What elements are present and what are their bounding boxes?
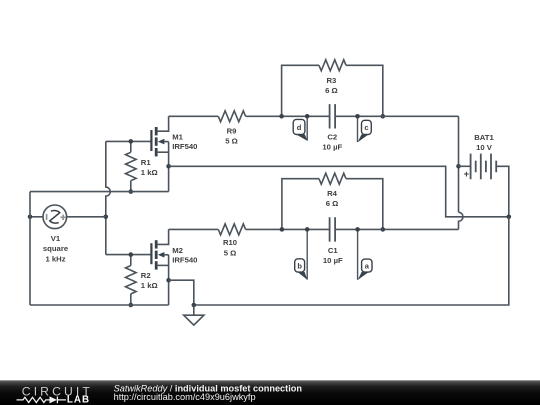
wire: M1 gate net horizontal [106,140,152,142]
node: V1 left junction [28,215,33,220]
svg-text:R9: R9 [227,126,237,135]
ground symbol [193,305,195,315]
node: R2 bottom junction [129,303,134,308]
svg-text:d: d [297,123,302,132]
wire: M2 source lead [158,264,169,266]
resistor R1 [130,141,132,152]
node: M2 source junction [166,278,171,283]
node: M1 source junction [166,164,171,169]
wire: M2 source vertical to bottom rail [168,255,170,305]
svg-text:R1: R1 [141,158,152,167]
wire: M1 source lead [158,151,169,153]
capacitor C2 [330,104,336,128]
transistor M2 IRF540 [150,243,152,264]
svg-text:LAB: LAB [67,395,90,405]
wire: R10 to C1 row [246,228,330,230]
wire: battery column hop over lower row [459,212,464,229]
logo resistor-diode squiggle [17,397,67,404]
svg-text:1 kΩ: 1 kΩ [141,168,158,177]
battery plates [471,154,491,180]
wire: M2 drain row with R10 [169,228,219,230]
resistor R3 parallel loop [282,65,319,116]
node: battery left junction [456,164,461,169]
svg-text:C1: C1 [328,246,339,255]
wire: V1 source row (R1 bottom rail) [30,191,169,193]
node: R4 left junction [280,227,285,232]
svg-text:b: b [297,262,302,271]
node: flag d junction [305,114,310,119]
svg-text:10 V: 10 V [476,143,493,152]
wire: source jog to ground [169,280,194,305]
svg-text:http://circuitlab.com/c49x9u6j: http://circuitlab.com/c49x9u6jwkyfp [114,392,256,402]
svg-text:IRF540: IRF540 [172,256,197,265]
svg-text:R4: R4 [327,189,338,198]
wire: bottom rail left [30,304,169,306]
resistor R4 parallel loop [282,179,319,230]
svg-text:6 Ω: 6 Ω [325,86,338,95]
svg-text:1 kΩ: 1 kΩ [141,281,158,290]
resistor R9 [218,111,245,122]
node: battery negative junction [507,215,512,220]
node: R3 left junction [279,114,284,119]
net flag b [306,229,308,279]
wire: M1 source vertical down [168,142,170,192]
node: flag b junction [305,227,310,232]
wire: M2 gate net horizontal [106,254,152,256]
svg-text:10 µF: 10 µF [323,256,343,265]
svg-text:+: + [464,169,470,180]
node: flag c junction [355,114,360,119]
svg-text:5 Ω: 5 Ω [225,136,238,145]
net flag c [357,116,359,142]
svg-text:R10: R10 [223,238,237,247]
svg-text:M1: M1 [172,133,183,142]
node: ground junction [192,303,197,308]
node: R3 right junction [381,114,386,119]
svg-text:5 Ω: 5 Ω [224,248,237,257]
svg-text:R3: R3 [326,76,336,85]
wire: M1 source row to battery negative [169,166,509,217]
resistor R10 [218,224,245,235]
wire: V1 right lead [67,216,106,218]
wire: M2 drain lead up [158,229,169,244]
wire: right vertical to bottom rail [194,217,509,305]
V1 plus mark [60,215,65,220]
footer bar [0,380,540,405]
node: R1 bottom junction [129,189,134,194]
transistor M1 IRF540 [150,130,152,151]
svg-text:C2: C2 [327,132,337,141]
svg-text:c: c [364,123,368,132]
wire: gate bus vertical with hop over source row [106,141,111,254]
svg-text:V1: V1 [51,234,61,243]
wire: lower drain row from battery column [383,228,459,230]
wire: C2 right to battery column [335,115,458,117]
net flag d [306,116,308,140]
resistor R2 [130,255,132,266]
svg-text:BAT1: BAT1 [474,133,494,142]
svg-text:6 Ω: 6 Ω [326,199,339,208]
wire: battery right lead [496,166,509,217]
wire: R9 to C2 row [246,115,330,117]
svg-text:M2: M2 [172,246,183,255]
node: flag a junction [355,227,360,232]
wire: drain row with R9 [169,115,219,117]
wire: V1 left lead [30,216,43,218]
svg-text:square: square [43,244,69,253]
node: R2 top junction [129,252,134,257]
svg-text:1 kHz: 1 kHz [45,254,65,263]
wire: C1 right segment [335,228,383,230]
wire: M1 drain lead up to R9 row [158,116,169,131]
svg-text:R2: R2 [141,271,151,280]
node: V1+ to gate bus junction [104,215,109,220]
V1 minus mark [46,214,48,220]
net flag a [357,229,359,279]
wire: left vertical V1- bus [29,192,31,305]
svg-text:10 µF: 10 µF [322,142,342,151]
node: R4 right junction [381,227,386,232]
voltage source V1 [43,205,67,229]
node: R1 top junction [129,139,134,144]
capacitor C1 [330,217,336,241]
battery BAT1 [458,116,460,212]
svg-text:IRF540: IRF540 [172,142,197,151]
